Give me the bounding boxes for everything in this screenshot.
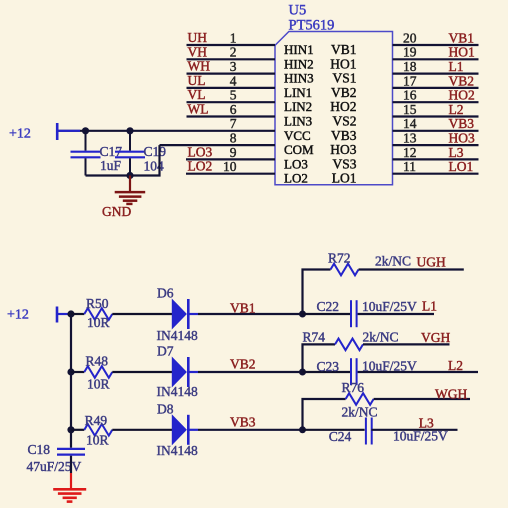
pin 15 wire (right) <box>393 115 479 117</box>
svg-text:2: 2 <box>230 45 237 60</box>
junction at C19 top <box>126 127 133 134</box>
svg-text:L3: L3 <box>449 145 464 160</box>
svg-text:LO3: LO3 <box>284 156 308 171</box>
svg-text:5: 5 <box>230 88 237 103</box>
svg-text:1: 1 <box>230 30 237 45</box>
pin 2 wire (left) <box>187 58 276 60</box>
svg-text:D8: D8 <box>157 402 174 417</box>
diode D7 <box>172 357 198 387</box>
resistor R76 <box>346 393 374 405</box>
svg-text:14: 14 <box>403 116 417 131</box>
resistor R49 <box>84 424 112 436</box>
resistor R72 <box>331 264 359 276</box>
svg-text:2k/NC: 2k/NC <box>375 254 411 269</box>
svg-text:VCC: VCC <box>284 128 311 143</box>
svg-text:R74: R74 <box>303 329 326 344</box>
svg-text:R49: R49 <box>85 413 108 428</box>
svg-text:VB1: VB1 <box>230 301 256 316</box>
pin 20 wire (right) <box>393 44 479 46</box>
svg-text:L1: L1 <box>422 298 437 313</box>
junction VB2 branch <box>299 369 306 376</box>
svg-text:10R: 10R <box>87 315 110 330</box>
wire +12 stub (bottom) <box>57 313 71 315</box>
wire R50 to D6 <box>112 313 172 315</box>
svg-text:C24: C24 <box>329 429 352 444</box>
svg-text:GND: GND <box>102 204 131 219</box>
gnd net wire C17-C19-COM <box>86 145 160 175</box>
wire C18 to ground <box>70 456 72 473</box>
svg-text:HO2: HO2 <box>449 88 475 103</box>
svg-text:LO3: LO3 <box>188 144 213 159</box>
power bar +12 (top) <box>56 123 59 140</box>
pin 9 wire (left) <box>186 158 275 160</box>
diode D8 <box>172 415 198 445</box>
pin 19 wire (right) <box>393 58 479 60</box>
svg-text:VB2: VB2 <box>331 85 357 100</box>
svg-text:L1: L1 <box>449 59 464 74</box>
svg-text:WH: WH <box>188 59 211 74</box>
wire branch to R74 <box>303 344 336 372</box>
capacitor C17 <box>85 131 87 151</box>
svg-text:1uF: 1uF <box>100 158 122 173</box>
svg-text:2k/NC: 2k/NC <box>342 404 378 419</box>
svg-text:IN4148: IN4148 <box>157 443 198 458</box>
svg-text:LO2: LO2 <box>188 159 213 174</box>
svg-text:VS2: VS2 <box>332 114 356 129</box>
wire C24 to L3 <box>371 429 457 431</box>
svg-text:15: 15 <box>403 102 417 117</box>
svg-text:VH: VH <box>188 44 208 59</box>
wire +12 stub (blue) <box>57 130 80 132</box>
svg-text:+12: +12 <box>7 308 29 323</box>
capacitor C23 <box>351 358 357 385</box>
junction VB3 branch <box>299 426 306 433</box>
svg-text:HO3: HO3 <box>449 131 475 146</box>
svg-text:HIN1: HIN1 <box>284 42 314 57</box>
svg-text:VL: VL <box>188 87 206 102</box>
svg-text:HO2: HO2 <box>330 99 356 114</box>
GND stem <box>129 176 131 192</box>
capacitor C22 <box>351 300 357 327</box>
ground symbol (power ground) <box>53 489 86 501</box>
svg-text:VB2: VB2 <box>449 73 475 88</box>
svg-text:L2: L2 <box>449 102 464 117</box>
capacitor C24 <box>366 418 372 445</box>
diode D6 <box>172 299 198 329</box>
svg-text:10R: 10R <box>86 433 109 448</box>
wire R76 to WGH <box>374 398 470 400</box>
wire C23 to L2 <box>358 371 478 373</box>
svg-text:HIN2: HIN2 <box>284 56 314 71</box>
svg-text:VB3: VB3 <box>449 116 475 131</box>
pin 10 wire (left) <box>186 173 275 175</box>
svg-text:VB2: VB2 <box>230 357 256 372</box>
svg-text:R76: R76 <box>342 380 365 395</box>
pin 17 wire (right) <box>393 87 479 89</box>
svg-text:10uF/25V: 10uF/25V <box>362 299 417 314</box>
wire R49 to D8 <box>112 429 172 431</box>
capacitor C18 <box>57 449 85 455</box>
svg-text:WGH: WGH <box>435 387 467 402</box>
wire VB1 to C22 <box>303 313 351 315</box>
pin 7 wire (left) <box>57 130 275 132</box>
svg-text:WL: WL <box>188 102 209 117</box>
pin 18 wire (right) <box>393 72 479 74</box>
IC U5 box <box>275 32 393 185</box>
svg-text:3: 3 <box>230 59 237 74</box>
svg-text:D6: D6 <box>157 286 174 301</box>
resistor R74 <box>335 339 363 351</box>
svg-text:R72: R72 <box>328 250 351 265</box>
GND symbol (power ground) <box>115 192 146 204</box>
wire rail to R48 <box>71 371 84 373</box>
pin 3 wire (left) <box>187 72 276 74</box>
svg-text:LO1: LO1 <box>449 159 474 174</box>
svg-text:D7: D7 <box>157 344 174 359</box>
svg-text:2k/NC: 2k/NC <box>363 329 399 344</box>
svg-text:7: 7 <box>230 116 237 131</box>
svg-text:HIN3: HIN3 <box>284 71 314 86</box>
svg-text:COM: COM <box>284 142 314 157</box>
svg-text:UH: UH <box>188 30 208 45</box>
wire D6 to net VB1 <box>198 313 303 315</box>
capacitor C19 <box>129 131 131 151</box>
pin 5 wire (left) <box>187 101 276 103</box>
svg-text:10R: 10R <box>87 376 110 391</box>
wire R72 to UGH <box>359 268 464 270</box>
svg-text:VB1: VB1 <box>449 30 475 45</box>
pin 4 wire (left) <box>187 87 276 89</box>
resistor R50 <box>84 308 112 320</box>
svg-text:VS3: VS3 <box>332 156 356 171</box>
pin 11 wire (right) <box>393 173 479 175</box>
junction rail/VB3 row <box>67 426 74 433</box>
junction at C17 top <box>82 127 89 134</box>
svg-text:LO1: LO1 <box>332 171 357 186</box>
junction rail/VB2 row <box>67 368 74 375</box>
svg-text:LIN2: LIN2 <box>284 99 312 114</box>
svg-text:VGH: VGH <box>421 330 450 345</box>
svg-text:C19: C19 <box>144 144 167 159</box>
pin 12 wire (right) <box>393 158 479 160</box>
svg-text:47uF/25V: 47uF/25V <box>27 459 82 474</box>
junction VB1 branch <box>299 311 306 318</box>
svg-text:6: 6 <box>230 102 237 117</box>
power bar +12 (bottom) <box>56 307 59 323</box>
svg-text:10: 10 <box>223 159 237 174</box>
wire D8 to net VB3 <box>198 429 303 431</box>
wire R48 to D7 <box>112 371 172 373</box>
svg-text:L3: L3 <box>419 416 434 431</box>
svg-text:LIN1: LIN1 <box>284 85 312 100</box>
svg-text:VB3: VB3 <box>230 414 256 429</box>
wire branch to R76 <box>303 399 346 430</box>
wire rail to R50 <box>71 313 84 315</box>
svg-text:9: 9 <box>230 145 237 160</box>
main +12 vertical rail <box>70 314 72 448</box>
pin 1 wire (left) <box>187 44 276 46</box>
svg-text:PT5619: PT5619 <box>289 18 335 34</box>
pin 14 wire (right) <box>393 130 479 132</box>
svg-text:VB1: VB1 <box>331 42 357 57</box>
pin 8 wire (left) <box>160 144 276 146</box>
resistor R48 <box>84 366 112 378</box>
svg-text:UGH: UGH <box>417 255 446 270</box>
svg-text:HO1: HO1 <box>449 45 475 60</box>
svg-text:13: 13 <box>403 131 417 146</box>
svg-text:VB3: VB3 <box>331 128 357 143</box>
svg-text:4: 4 <box>230 73 237 88</box>
svg-text:17: 17 <box>403 73 417 88</box>
svg-text:U5: U5 <box>289 3 307 19</box>
svg-text:R48: R48 <box>86 354 109 369</box>
svg-text:8: 8 <box>230 131 237 146</box>
svg-text:L2: L2 <box>448 358 463 373</box>
svg-text:VS1: VS1 <box>332 71 356 86</box>
wire branch to R72 <box>303 270 331 315</box>
pin 16 wire (right) <box>393 101 479 103</box>
svg-text:20: 20 <box>403 30 417 45</box>
svg-text:IN4148: IN4148 <box>157 384 198 399</box>
junction rail/VB1 row <box>67 310 74 317</box>
svg-text:R50: R50 <box>86 296 109 311</box>
wire rail to R49 <box>71 429 84 431</box>
svg-text:16: 16 <box>403 88 417 103</box>
pin 6 wire (left) <box>187 115 276 117</box>
svg-text:IN4148: IN4148 <box>157 328 198 343</box>
svg-text:104: 104 <box>144 159 165 174</box>
svg-text:C22: C22 <box>317 299 340 314</box>
svg-text:UL: UL <box>188 73 206 88</box>
svg-text:HO3: HO3 <box>330 142 356 157</box>
wire D7 to net VB2 <box>198 371 303 373</box>
svg-text:12: 12 <box>403 145 417 160</box>
wire C22 to L1 <box>358 313 434 315</box>
wire VB3 to C24 <box>303 429 365 431</box>
svg-text:HO1: HO1 <box>330 56 356 71</box>
svg-text:19: 19 <box>403 45 417 60</box>
svg-text:LO2: LO2 <box>284 171 308 186</box>
svg-text:11: 11 <box>403 159 416 174</box>
svg-text:18: 18 <box>403 59 417 74</box>
pin 13 wire (right) <box>393 144 479 146</box>
svg-text:LIN3: LIN3 <box>284 114 312 129</box>
wire R74 to VGH <box>363 343 450 345</box>
svg-text:C18: C18 <box>28 442 51 457</box>
wire VB2 to C23 <box>303 371 351 373</box>
svg-text:C23: C23 <box>317 359 340 374</box>
junction at C19 bottom <box>126 172 133 179</box>
ground stem (red) <box>70 473 72 489</box>
svg-text:+12: +12 <box>9 127 31 142</box>
